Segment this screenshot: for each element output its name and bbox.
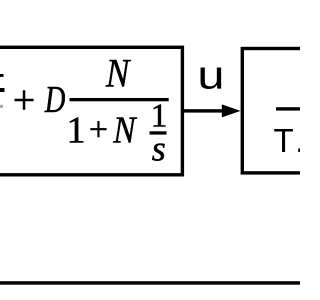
svg-text:+: + bbox=[13, 78, 36, 123]
svg-text:+: + bbox=[89, 111, 108, 148]
svg-text:N: N bbox=[105, 51, 131, 96]
svg-text:N: N bbox=[112, 109, 137, 151]
svg-text:1: 1 bbox=[67, 110, 86, 152]
svg-text:T.s + 1: T.s + 1 bbox=[274, 122, 301, 159]
svg-text:D: D bbox=[44, 79, 65, 121]
svg-text:u: u bbox=[197, 54, 224, 98]
svg-text:s: s bbox=[152, 129, 166, 169]
